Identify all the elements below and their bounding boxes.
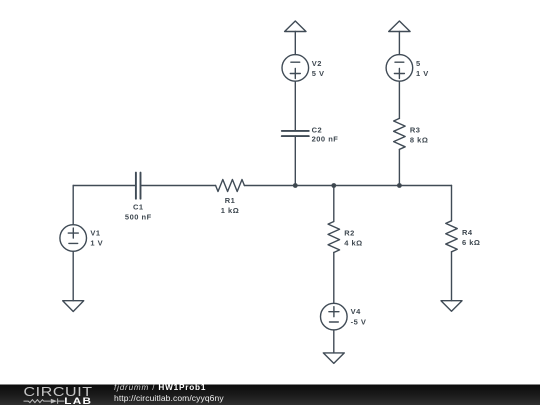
capacitor C1 xyxy=(136,173,141,199)
power symbol top of V2 xyxy=(285,21,306,32)
svg-text:C2: C2 xyxy=(312,126,323,135)
footer bar xyxy=(0,385,540,405)
svg-text:R2: R2 xyxy=(344,229,355,238)
capacitor C2 xyxy=(282,131,309,136)
svg-text:-5 V: -5 V xyxy=(351,317,367,326)
wire node to R2 xyxy=(333,186,335,222)
wire main horizontal left segment xyxy=(73,185,136,187)
svg-text:5: 5 xyxy=(416,59,421,68)
node dot R2 junction xyxy=(331,183,336,188)
voltage source V1 xyxy=(60,225,87,252)
svg-text:R3: R3 xyxy=(410,126,421,135)
wire R3 to node xyxy=(398,149,400,185)
svg-text:R4: R4 xyxy=(462,228,473,237)
svg-text:fjdrumm / HW1Prob1: fjdrumm / HW1Prob1 xyxy=(114,383,206,392)
resistor R4 xyxy=(446,221,458,252)
svg-text:200 nF: 200 nF xyxy=(312,135,339,144)
svg-text:1 V: 1 V xyxy=(90,238,103,247)
svg-text:5 V: 5 V xyxy=(312,69,325,78)
node dot R3 junction xyxy=(397,183,402,188)
wire V5 branch top xyxy=(398,32,400,55)
svg-text:8 kΩ: 8 kΩ xyxy=(410,136,428,145)
voltage source V4 xyxy=(321,303,348,330)
wire V4 to ground xyxy=(333,330,335,353)
ground under V1 xyxy=(63,301,84,312)
wire R4 to ground xyxy=(451,252,453,301)
resistor R3 xyxy=(394,118,406,149)
voltage source V5 xyxy=(386,55,413,82)
wire main horizontal middle segment xyxy=(141,185,216,187)
ground under V4 xyxy=(323,353,344,364)
wire main horizontal right segment xyxy=(244,185,451,187)
wire C2 to node xyxy=(294,136,296,185)
wire V2 branch top xyxy=(294,32,296,55)
wire R2 to V4 xyxy=(333,253,335,304)
wire R4 branch upper xyxy=(451,186,453,221)
svg-text:http://circuitlab.com/cyyq6ny: http://circuitlab.com/cyyq6ny xyxy=(114,393,224,403)
svg-text:V1: V1 xyxy=(90,229,100,238)
voltage source V2 xyxy=(282,55,309,82)
svg-text:4 kΩ: 4 kΩ xyxy=(344,238,362,247)
svg-text:R1: R1 xyxy=(225,196,236,205)
wire left branch lower xyxy=(72,251,74,300)
power symbol top of V5 xyxy=(389,21,410,32)
wire left branch upper xyxy=(72,186,74,225)
svg-text:C1: C1 xyxy=(133,203,144,212)
svg-text:V2: V2 xyxy=(312,59,322,68)
svg-text:500 nF: 500 nF xyxy=(125,213,152,222)
svg-text:V4: V4 xyxy=(351,307,362,316)
svg-text:1 V: 1 V xyxy=(416,69,429,78)
svg-text:1 kΩ: 1 kΩ xyxy=(221,206,239,215)
svg-text:LAB: LAB xyxy=(64,397,92,405)
wire V2 to C2 xyxy=(294,81,296,131)
node dot C2 junction xyxy=(293,183,298,188)
logo wire resistor diode xyxy=(24,398,65,403)
resistor R2 xyxy=(328,222,340,253)
ground under R4 xyxy=(441,301,462,312)
wire V5 to R3 xyxy=(398,81,400,118)
resistor R1 xyxy=(216,180,245,192)
svg-text:6 kΩ: 6 kΩ xyxy=(462,238,480,247)
